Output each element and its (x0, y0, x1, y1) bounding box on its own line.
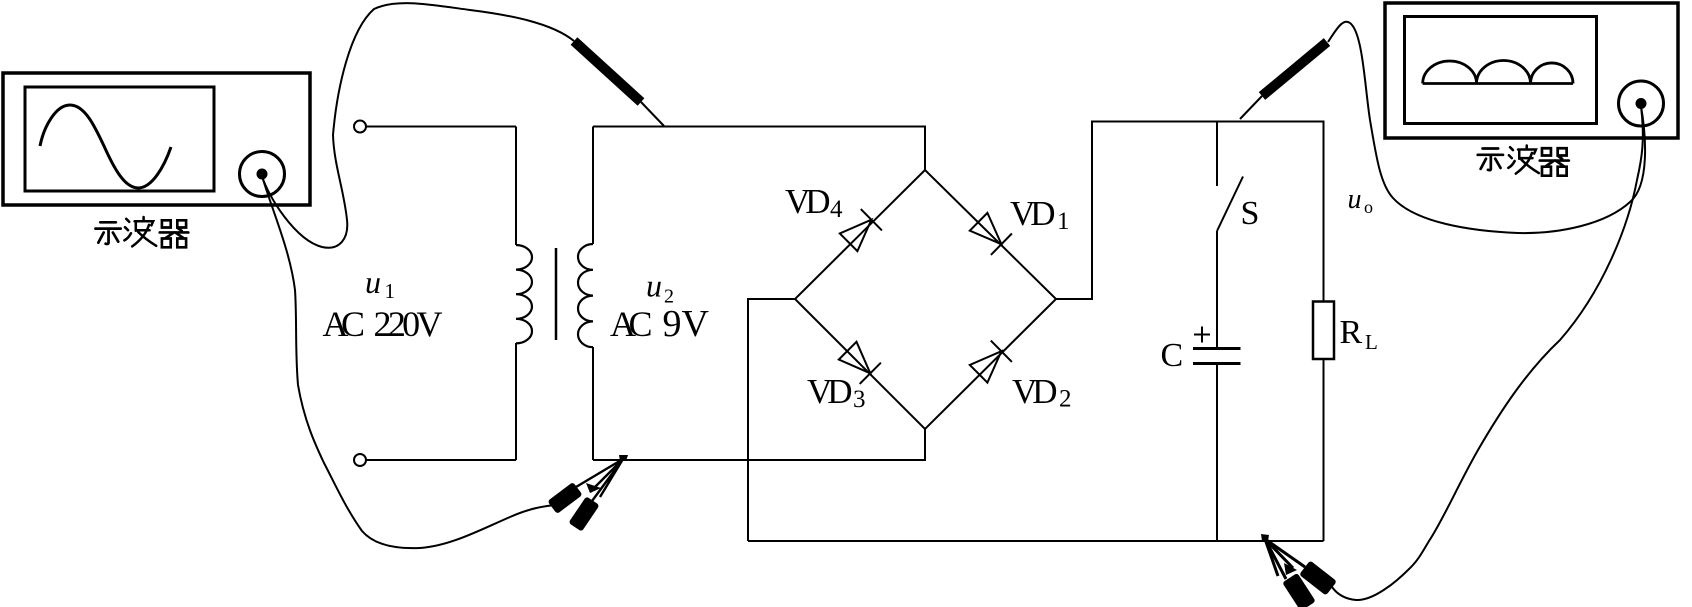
svg-text:VD: VD (807, 372, 853, 411)
svg-text:1: 1 (385, 279, 396, 303)
svg-text:u: u (646, 268, 662, 304)
svg-text:3: 3 (853, 386, 866, 413)
svg-text:L: L (1365, 330, 1378, 354)
svg-text:9V: 9V (663, 303, 710, 345)
svg-text:AC: AC (610, 304, 653, 344)
svg-text:1: 1 (1057, 208, 1070, 235)
svg-text:u: u (1348, 184, 1362, 215)
svg-text:S: S (1241, 195, 1260, 232)
svg-text:VD: VD (785, 182, 831, 221)
svg-text:220V: 220V (374, 304, 443, 344)
svg-text:C: C (1161, 337, 1184, 374)
svg-text:VD: VD (1010, 194, 1056, 233)
svg-text:u: u (365, 264, 381, 300)
svg-text:AC: AC (323, 304, 366, 344)
svg-text:4: 4 (830, 196, 843, 223)
svg-text:VD: VD (1012, 372, 1058, 411)
svg-text:R: R (1340, 314, 1363, 351)
svg-text:2: 2 (664, 286, 674, 308)
svg-text:2: 2 (1059, 386, 1072, 413)
svg-text:o: o (1364, 197, 1373, 217)
